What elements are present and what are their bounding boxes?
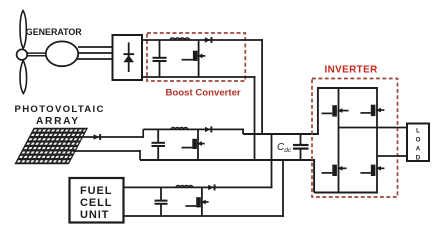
svg-text:UNIT: UNIT [80, 209, 109, 221]
wire pv bottom [73, 150, 141, 152]
wire inverter right leg [376, 88, 378, 193]
wire inverter top rail [317, 87, 378, 89]
svg-text:Boost Converter: Boost Converter [166, 88, 241, 99]
turbine shaft [27, 53, 47, 56]
svg-text:FUEL: FUEL [80, 185, 112, 197]
wire boost1 bottom rail [142, 76, 255, 78]
diode D4 [208, 184, 215, 190]
diode D1 [205, 37, 213, 43]
rectifier box [113, 35, 143, 80]
svg-text:CELL: CELL [80, 197, 112, 209]
label LOAD [416, 128, 421, 162]
wire pv converter top rail [143, 128, 244, 130]
MOSFET Q7 [360, 165, 384, 176]
svg-text:L: L [416, 128, 420, 135]
label FUEL CELL UNIT [80, 185, 112, 221]
wire generator phase c [76, 58, 113, 60]
fuel cell unit box [70, 178, 124, 223]
wire generator phase b [78, 52, 113, 54]
wire pv top jog to bus [242, 129, 244, 134]
MOSFET Q2 [182, 129, 205, 160]
wind turbine blade top [20, 11, 26, 49]
wire fc bottom rail [124, 215, 284, 217]
wind turbine hub [17, 49, 28, 60]
wire pv top [80, 136, 144, 138]
inductor L2 [171, 127, 188, 129]
wire fc minus riser [282, 160, 284, 217]
svg-text:O: O [416, 137, 421, 144]
rectifier diode [123, 42, 134, 72]
MOSFET Q5 [360, 105, 384, 116]
MOSFET Q3 [185, 187, 208, 216]
wire dc plus bus [243, 133, 319, 135]
wire load lower [377, 155, 407, 157]
wire fc top rail [124, 186, 273, 188]
MOSFET Q4 [322, 105, 349, 116]
wire boost1 plus drop [261, 39, 263, 134]
inverter dashed box [312, 79, 398, 198]
generator G [46, 41, 78, 66]
MOSFET Q6 [322, 165, 347, 176]
MOSFET Q1 [182, 40, 206, 77]
wire dc plus riser [317, 88, 319, 135]
svg-text:A: A [416, 146, 421, 153]
svg-text:ARRAY: ARRAY [36, 116, 80, 127]
photovoltaic array panel [15, 129, 87, 164]
svg-text:Cdc: Cdc [277, 142, 292, 154]
svg-text:D: D [416, 155, 421, 162]
diode D3 [205, 126, 212, 132]
capacitor Cdc [293, 134, 309, 160]
capacitor C2 [152, 129, 166, 160]
wire dc minus drop [313, 159, 315, 192]
capacitor C1 [153, 40, 167, 77]
boost converter dashed box [147, 33, 245, 81]
wind turbine blade bottom [20, 61, 27, 94]
wire inverter left leg [338, 88, 340, 193]
wire fc plus riser [271, 134, 273, 188]
wire inverter bottom rail [314, 192, 378, 194]
wire generator phase a [78, 46, 113, 48]
svg-text:GENERATOR: GENERATOR [26, 27, 82, 37]
wire pv bottom jog [139, 150, 141, 160]
diode D2 [94, 134, 102, 140]
wire boost1 top rail [142, 39, 263, 41]
inductor L3 [176, 185, 193, 187]
wire pv jog up [142, 129, 144, 137]
wire boost1 minus drop [254, 76, 256, 160]
inductor L1 [170, 38, 190, 40]
wire dc minus bus [140, 159, 315, 161]
load box [407, 124, 429, 162]
wire load upper [339, 127, 408, 129]
svg-text:PHOTOVOLTAIC: PHOTOVOLTAIC [15, 104, 105, 115]
capacitor C3 [155, 187, 168, 216]
svg-text:INVERTER: INVERTER [325, 65, 378, 76]
